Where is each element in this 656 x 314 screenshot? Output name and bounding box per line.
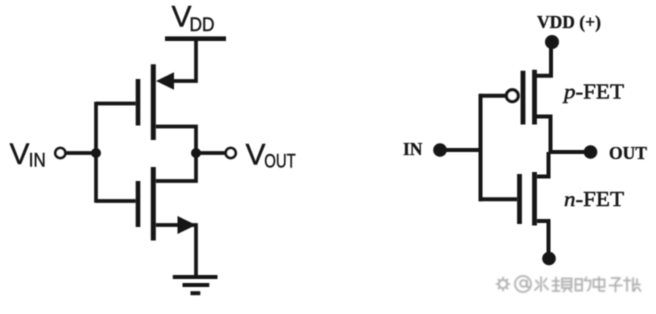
wire p-FET drain to output line <box>536 117 551 153</box>
wire input terminal to junction <box>67 151 97 155</box>
svg-text:n-FET: n-FET <box>564 187 624 211</box>
svg-text:V: V <box>246 139 266 172</box>
wire VDD dot to p-FET source <box>536 45 551 76</box>
p-FET gate bubble <box>506 90 518 102</box>
transistor p-FET gate bar <box>521 71 526 125</box>
wire bubble to input bus <box>481 94 506 98</box>
watermark icon <box>497 278 510 291</box>
wire input bus vertical <box>94 102 98 203</box>
VDD power rail <box>165 36 226 41</box>
wire PMOS drain down to output node <box>156 127 196 154</box>
wire n-FET gate to input bus <box>479 197 518 201</box>
wire n-FET source up to output line <box>537 152 549 177</box>
OUT terminal dot <box>584 145 598 159</box>
wire output line <box>551 150 586 154</box>
transistor n-FET channel bar <box>532 172 537 226</box>
transistor M1 PMOS channel bar <box>151 64 156 140</box>
watermark <box>497 276 641 292</box>
transistor M2 NMOS gate bar <box>136 181 141 227</box>
output terminal circle <box>226 148 236 158</box>
wire PMOS gate to input bus <box>96 102 136 106</box>
input terminal circle <box>55 148 65 158</box>
watermark char 1 <box>535 277 548 291</box>
wire input bus vertical (right) <box>479 94 483 202</box>
negative supply terminal dot <box>542 252 556 266</box>
label VOUT <box>246 139 297 173</box>
wire NMOS source to ground <box>156 225 196 276</box>
watermark at-sign <box>515 276 531 292</box>
watermark char 2 <box>553 278 572 292</box>
IN terminal dot <box>433 143 447 157</box>
watermark char 5 <box>610 278 623 292</box>
transistor p-FET channel bar <box>532 70 537 125</box>
svg-text:V: V <box>10 138 30 171</box>
svg-text:IN: IN <box>403 139 423 159</box>
svg-text:p-FET: p-FET <box>562 80 624 104</box>
transistor M2 NMOS channel bar <box>151 167 156 241</box>
PMOS source arrow (points into channel) <box>156 72 174 89</box>
svg-text:V: V <box>172 1 192 34</box>
transistor M1 PMOS gate bar <box>136 79 141 126</box>
transistor n-FET gate bar <box>517 174 522 224</box>
wire output node to terminal <box>196 151 225 155</box>
wire NMOS drain up to output node <box>156 153 196 181</box>
VDD terminal dot <box>545 35 559 49</box>
wire NMOS gate to input bus <box>96 199 136 203</box>
wire IN dot to input bus <box>445 148 482 152</box>
ground symbol <box>173 277 218 293</box>
watermark char 6 <box>624 278 641 292</box>
watermark char 4 <box>594 277 605 291</box>
label VDD <box>172 1 215 37</box>
svg-text:IN: IN <box>29 151 46 172</box>
NMOS source arrow (points out of channel) <box>178 216 197 234</box>
svg-text:VDD (+): VDD (+) <box>537 12 601 32</box>
svg-text:DD: DD <box>190 15 215 36</box>
svg-text:OUT: OUT <box>609 143 647 163</box>
node input junction <box>91 148 101 158</box>
node output junction <box>191 148 201 158</box>
label VIN <box>10 138 46 172</box>
watermark char 3 <box>576 278 591 291</box>
svg-text:OUT: OUT <box>264 152 296 173</box>
wire n-FET drain to negative terminal <box>537 221 549 253</box>
wire VDD rail to PMOS source <box>173 41 196 81</box>
